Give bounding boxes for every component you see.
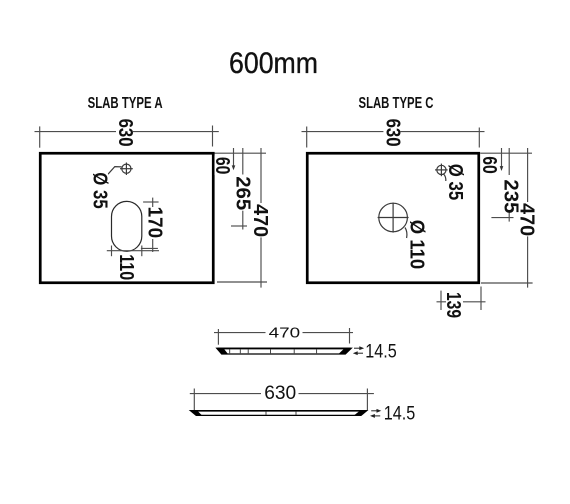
svg-text:170: 170 xyxy=(143,207,165,239)
svg-text:470: 470 xyxy=(269,326,301,342)
svg-text:110: 110 xyxy=(115,254,137,280)
svg-text:600mm: 600mm xyxy=(229,47,318,80)
svg-text:Ø 35: Ø 35 xyxy=(444,164,466,201)
svg-text:470: 470 xyxy=(515,203,537,236)
svg-text:139: 139 xyxy=(442,292,464,318)
svg-text:SLAB TYPE A: SLAB TYPE A xyxy=(88,95,163,112)
svg-text:630: 630 xyxy=(381,119,403,147)
svg-text:470: 470 xyxy=(249,204,271,237)
svg-text:630: 630 xyxy=(264,382,296,404)
svg-text:60: 60 xyxy=(211,157,233,175)
svg-text:630: 630 xyxy=(114,119,136,147)
svg-text:SLAB TYPE C: SLAB TYPE C xyxy=(359,95,434,112)
svg-text:Ø 35: Ø 35 xyxy=(89,172,111,209)
svg-text:14.5: 14.5 xyxy=(365,341,397,363)
svg-text:60: 60 xyxy=(478,156,500,174)
svg-text:Ø 110: Ø 110 xyxy=(405,220,427,270)
svg-text:14.5: 14.5 xyxy=(384,403,416,425)
